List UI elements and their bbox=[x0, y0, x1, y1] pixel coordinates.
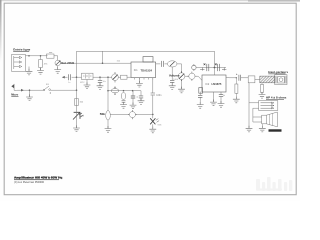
capacitor C10 bbox=[161, 61, 163, 67]
ground bbox=[259, 92, 266, 98]
trimmer P2 bbox=[112, 74, 119, 81]
svg-text:HP 4 à 8 ohms: HP 4 à 8 ohms bbox=[266, 95, 287, 99]
branch wire bbox=[108, 90, 141, 92]
below IC2 bbox=[197, 92, 226, 109]
ground pin4 bbox=[138, 78, 140, 83]
supply bus bbox=[77, 51, 215, 128]
svg-text:10k: 10k bbox=[117, 60, 121, 62]
node bbox=[132, 90, 134, 92]
inductor L1 bbox=[260, 76, 275, 83]
node bbox=[76, 89, 78, 91]
ground bbox=[26, 69, 33, 75]
capacitor C13 bbox=[207, 64, 209, 71]
capacitor C16 bbox=[220, 92, 222, 95]
node bbox=[28, 55, 30, 57]
ground bbox=[86, 80, 88, 85]
wire bbox=[255, 78, 260, 80]
svg-text:(C) Luc Pieterman PM2000: (C) Luc Pieterman PM2000 bbox=[14, 181, 45, 184]
capacitor C19 bbox=[192, 65, 196, 69]
ground bbox=[149, 127, 156, 133]
svg-text:Amplificateur Hifi 40W à 60W H: Amplificateur Hifi 40W à 60W Hq bbox=[14, 176, 62, 180]
resistor R1 bbox=[40, 56, 42, 60]
capacitor C11 bbox=[171, 67, 173, 80]
feedback notch bbox=[199, 88, 203, 94]
svg-text:5V6: 5V6 bbox=[158, 124, 163, 126]
microphone jack bbox=[13, 84, 15, 90]
wire block to speaker bbox=[253, 108, 262, 122]
balance wire bbox=[60, 62, 131, 64]
connector J2 bbox=[275, 75, 287, 85]
wire down to grounds bbox=[248, 83, 250, 128]
ground bbox=[29, 90, 31, 96]
LED D1 bbox=[73, 112, 80, 119]
node bbox=[123, 90, 125, 92]
filter block FL1 bbox=[82, 73, 94, 79]
svg-text:IC2: IC2 bbox=[206, 83, 210, 86]
pot P6 bbox=[111, 89, 119, 93]
svg-text:Haut-parleurs: Haut-parleurs bbox=[268, 70, 288, 74]
svg-text:Entrée ligne: Entrée ligne bbox=[13, 48, 30, 52]
capacitor C12 bbox=[185, 75, 189, 77]
capacitor C8 bbox=[152, 78, 154, 93]
svg-text:1u: 1u bbox=[68, 82, 71, 84]
node bbox=[107, 76, 109, 78]
label 40W bar bbox=[269, 129, 282, 131]
border frame bbox=[4, 3, 296, 195]
svg-text:100k: 100k bbox=[173, 79, 179, 81]
resistor R2 bbox=[47, 54, 55, 58]
wire bbox=[196, 67, 226, 69]
svg-text:10n: 10n bbox=[103, 81, 107, 83]
resistor R5 on top bbox=[143, 57, 153, 62]
capacitor C17 bbox=[239, 75, 241, 81]
capacitor C2 bbox=[99, 77, 101, 80]
op-amp IC1 box bbox=[131, 62, 156, 78]
svg-text:100n: 100n bbox=[156, 95, 162, 97]
output wire bbox=[226, 76, 236, 79]
ground bbox=[37, 68, 44, 74]
capacitor C5 bbox=[132, 91, 134, 96]
svg-text:TDA1524: TDA1524 bbox=[141, 68, 153, 72]
svg-text:IC1: IC1 bbox=[134, 69, 138, 72]
potentiometer P1 bbox=[55, 60, 60, 65]
scan edge left bbox=[0, 0, 1, 1]
ground bbox=[261, 124, 263, 128]
label Entrée B out préampli bbox=[13, 48, 30, 52]
svg-text:10k: 10k bbox=[80, 101, 84, 103]
svg-text:D1: D1 bbox=[81, 116, 85, 118]
svg-text:+: + bbox=[236, 72, 238, 76]
ground bbox=[73, 125, 80, 131]
wire to block row1 bbox=[249, 102, 259, 104]
wire bbox=[177, 64, 182, 73]
capacitor C20 bbox=[140, 91, 142, 96]
label Haut-parleurs bbox=[268, 70, 288, 74]
capacitor C4 bbox=[121, 92, 125, 99]
terminal block J3 bbox=[259, 101, 278, 111]
resistor R8 bbox=[261, 83, 263, 85]
op-amp IC2 box bbox=[202, 75, 226, 92]
switch S1 bbox=[43, 89, 45, 91]
volume pot P5 bbox=[178, 73, 185, 80]
svg-text:47k: 47k bbox=[44, 64, 48, 66]
pin stubs bbox=[135, 78, 153, 80]
node bbox=[76, 76, 78, 78]
node bbox=[214, 67, 216, 69]
resistor R4 bbox=[118, 76, 120, 78]
capacitor C9 bbox=[129, 112, 135, 118]
supply decoupling cluster bbox=[192, 63, 227, 75]
resistor R3 bbox=[75, 99, 79, 106]
wire bbox=[156, 63, 161, 65]
title text line 1 bbox=[14, 176, 62, 184]
node bbox=[99, 76, 101, 78]
capacitor C14 bbox=[218, 64, 220, 71]
ghost watermark bottom right bbox=[256, 177, 292, 191]
capacitor C1 bbox=[62, 76, 65, 79]
pot P4 bbox=[167, 61, 177, 67]
wire bbox=[110, 114, 129, 116]
svg-text:Volume: Volume bbox=[169, 74, 180, 78]
resistor R7 bbox=[248, 76, 255, 83]
wire bbox=[51, 89, 77, 91]
svg-text:S1: S1 bbox=[46, 84, 49, 86]
node bbox=[152, 114, 154, 116]
speaker LS1 bbox=[262, 115, 267, 124]
ground bbox=[178, 87, 185, 93]
wire bbox=[17, 89, 43, 91]
node bbox=[29, 89, 31, 91]
zener D2 bbox=[150, 118, 155, 124]
ground pin bbox=[213, 92, 215, 102]
scan edge top bbox=[0, 0, 300, 1]
wire bbox=[96, 76, 112, 78]
resistor R6 bbox=[236, 77, 237, 78]
label Micro bbox=[11, 93, 18, 97]
connector J1 bbox=[12, 55, 26, 72]
svg-text:Micro: Micro bbox=[11, 93, 18, 97]
label HP 4 à 8 ohms bbox=[266, 95, 287, 99]
node bbox=[102, 62, 104, 64]
capacitor C15 bbox=[199, 92, 201, 96]
svg-text:MPX: MPX bbox=[80, 82, 85, 84]
ground bbox=[54, 67, 61, 73]
arrow bbox=[21, 89, 24, 92]
wire bbox=[26, 55, 48, 57]
svg-text:50k: 50k bbox=[100, 112, 105, 116]
svg-text:+: + bbox=[223, 94, 225, 97]
node bbox=[40, 55, 42, 57]
svg-text:LM1875: LM1875 bbox=[212, 82, 222, 86]
